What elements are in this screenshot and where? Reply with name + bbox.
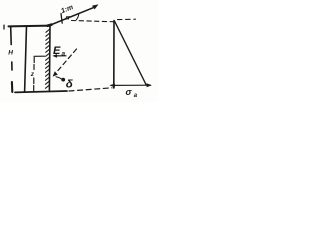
svg-text:E: E (53, 45, 61, 57)
svg-text:H: H (8, 50, 13, 57)
svg-text:σ: σ (126, 87, 133, 97)
svg-text:a: a (62, 51, 66, 58)
svg-text:z: z (30, 71, 35, 78)
svg-text:δ: δ (66, 79, 74, 91)
